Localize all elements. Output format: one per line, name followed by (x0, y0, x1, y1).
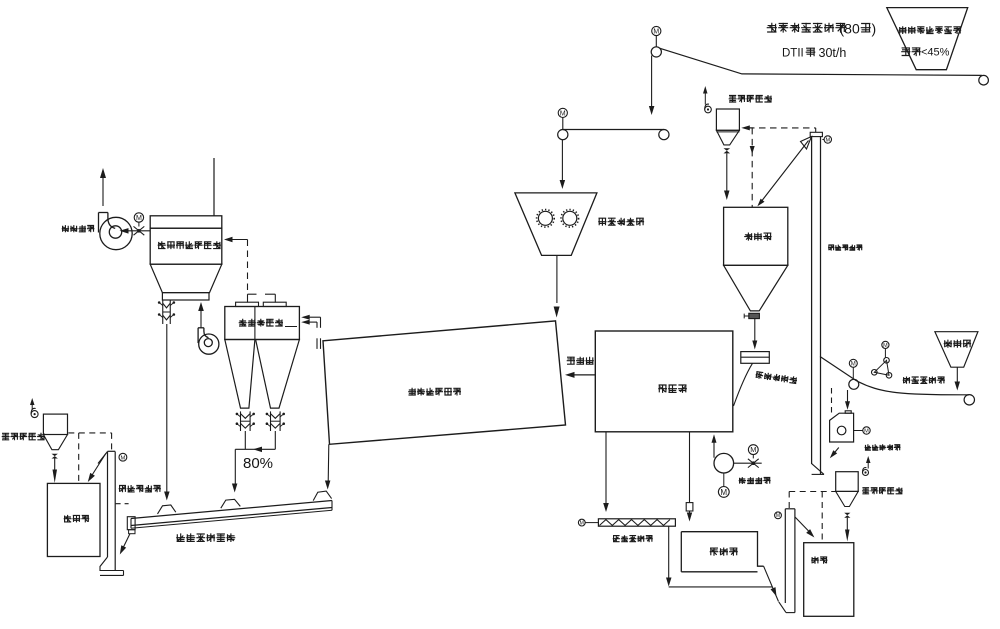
duct from dryer to cyclone (with break) (320, 317, 322, 328)
motor M - left elevator (119, 453, 127, 461)
unit collector cone (left) (43, 435, 67, 450)
motor M - ring belt conveyor head pulley (652, 26, 661, 35)
unit collector cone (slag) (836, 491, 859, 506)
slag elevator column (784, 509, 786, 603)
fan - cyclone exhaust fan (199, 334, 219, 354)
air conveying chute bar (131, 501, 332, 519)
drop arrow to slag silo (846, 518, 848, 530)
unit dust collector (left) body (43, 414, 67, 434)
label bucket elevator (right) (828, 245, 862, 251)
motor M - crusher (863, 427, 870, 434)
svg-text:M: M (653, 28, 659, 35)
drop line collector to coal bin (726, 154, 728, 193)
product silo (47, 483, 100, 556)
feeder chute into furnace (734, 363, 753, 406)
label forced feeding hopper (598, 218, 644, 226)
screw discharge line to slag elevator (668, 526, 670, 579)
label raw coal hopper (944, 340, 971, 348)
motor M - feed belt (558, 108, 567, 117)
furnace drop to slag cooler (689, 432, 691, 503)
cyclone cone 1 (225, 340, 255, 409)
label tail exhaust fan (62, 225, 95, 232)
dashed dust lines to unit collector (slag) (788, 492, 790, 509)
tail pulley - ring belt conveyor (979, 75, 989, 85)
svg-text:M: M (864, 428, 869, 434)
blower fan circle (714, 453, 734, 473)
motor M - take-up (882, 341, 889, 348)
crushed coal bin (724, 207, 788, 265)
belt drop arrow into crusher (847, 390, 849, 403)
coal feeder (741, 352, 770, 364)
chute inlet bump 3 (right end) (313, 491, 331, 501)
rotary dryer body (323, 321, 566, 444)
label kaohua vacuum pre-hanging machine (899, 26, 962, 34)
label screw conveyor (613, 535, 653, 542)
label cyclone dust collector (239, 319, 283, 327)
bucket elevator column (left) (107, 452, 109, 558)
svg-text:M: M (825, 137, 830, 143)
chute inlet bump 2 (221, 499, 241, 508)
label ring belt conveyor (80m) (767, 23, 846, 33)
label product silo (64, 515, 89, 523)
label slag cooler (710, 548, 738, 556)
chute to elevator boot arrow (123, 534, 131, 549)
bag dust collector body (150, 228, 222, 264)
drop line to air chute (234, 449, 236, 486)
inlet arrow into top collector (745, 127, 753, 129)
crusher rotor circle (837, 426, 846, 435)
dashed dust header to elevator top (748, 127, 816, 129)
dashed line belt to crusher (831, 388, 833, 414)
valve X - blower (748, 459, 759, 468)
chute left feed box (127, 517, 135, 530)
pulley left - feed belt (558, 130, 568, 140)
unit dust collector (slag) body (836, 472, 859, 492)
label hot air pipe (567, 357, 594, 365)
cyclone top cap 2 (263, 302, 286, 306)
motor M - blower (718, 487, 729, 498)
bag collector discharge line to chute (166, 324, 168, 493)
fan - tail exhaust fan (100, 217, 132, 249)
dashed drop line into coal bin with arrow (751, 128, 753, 207)
bag collector hopper (150, 264, 222, 292)
elevator top cap (108, 450, 116, 452)
elevator boot (left) (100, 557, 124, 571)
chute inlet bump 1 (158, 505, 176, 514)
crusher discharge arrow to elevator boot (833, 448, 839, 456)
svg-text:M: M (750, 445, 756, 454)
hammer crusher body (830, 413, 854, 442)
label air conveying chute (176, 533, 235, 542)
exhaust stack of bag collector (213, 158, 215, 216)
diagonal elevator-to-bin line (double arrows) (761, 141, 809, 203)
gate valve under coal bin (749, 313, 760, 318)
svg-text:M: M (560, 110, 566, 117)
feed line hopper to rotary dryer (556, 255, 558, 303)
cyclone outlet stub right (265, 293, 275, 295)
belt line - feed belt (563, 129, 664, 131)
fan - unit collector top (705, 106, 712, 113)
motor M - slag elevator (775, 512, 782, 519)
valve - unit collector slag (844, 513, 850, 516)
dash stub near elevator (116, 503, 129, 505)
label unit dust collector slag (862, 487, 903, 494)
valve - unit collector top (724, 148, 731, 151)
svg-text:30t/h: 30t/h (819, 46, 847, 60)
bag dust collector top band (150, 216, 222, 228)
label quantitative coal feeder (755, 371, 797, 384)
blower supply line to furnace (713, 438, 715, 458)
cyclone outlet stub left (247, 294, 249, 302)
label blower fan (739, 477, 771, 484)
flap valve cyclone 1 (240, 411, 242, 431)
svg-text:M: M (776, 513, 780, 519)
svg-text:): ) (872, 21, 877, 37)
elevator boot (right) (812, 464, 824, 475)
take-up pulley triangle (884, 358, 890, 364)
svg-text:M: M (883, 343, 888, 349)
dashed riser cyclone to bag collector (247, 240, 249, 295)
exhaust stack line up (102, 176, 104, 206)
svg-text:M: M (136, 214, 142, 222)
motor M - main elevator (824, 136, 831, 143)
valve - unit collector left (52, 454, 58, 456)
svg-text:M: M (851, 361, 856, 367)
flap valve cyclone 2 (270, 411, 272, 431)
toothed roller 1 (538, 211, 552, 225)
label unit dust collector left (2, 433, 45, 441)
belt line - raw coal belt conveyor (820, 357, 969, 395)
drop arrow to product silo (54, 459, 56, 471)
drop line from head pulley (651, 56, 653, 108)
motor M - fan valve (134, 213, 143, 222)
svg-text:<45%: <45% (921, 47, 950, 59)
motor M - screw conveyor (578, 519, 585, 526)
label moisture <45% (901, 47, 921, 56)
line coal bin to feeder (754, 319, 756, 342)
slag silo (804, 543, 854, 617)
screw conveyor bar (598, 519, 675, 526)
cyclone cone 2 (256, 340, 300, 409)
label unit dust collector top (729, 95, 772, 103)
cyclone divider (254, 307, 256, 340)
belt line - ring belt conveyor (660, 48, 982, 75)
svg-text:DTII: DTII (782, 48, 804, 60)
motor M - raw coal belt (849, 359, 857, 367)
pulley right - feed belt (659, 130, 669, 140)
coal bin cone (724, 265, 788, 311)
label hammer crusher (865, 444, 901, 450)
label crushed coal bin (744, 233, 771, 241)
svg-text:80%: 80% (243, 455, 273, 472)
fluidized bed furnace (595, 331, 733, 432)
label raw coal belt conveyor (903, 377, 945, 384)
head pulley - raw coal belt (849, 379, 859, 389)
svg-text:M: M (120, 455, 125, 461)
dryer discharge line to chute (327, 444, 330, 482)
cyclone main box (225, 307, 300, 340)
slag cooler discharge diagonal to elevator boot (764, 566, 779, 601)
hopper drop arrow onto belt (956, 367, 958, 383)
blower outlet line (734, 462, 762, 464)
rotary double-flap valve under bag collector (162, 300, 164, 324)
fan - unit collector left (31, 411, 38, 418)
slag cooler body (681, 532, 763, 567)
hot air pipe arrow (570, 374, 595, 376)
bag collector bottom band (162, 293, 209, 300)
slag elevator boot (779, 602, 786, 613)
hopper - kaohua vacuum pre-hanging machine (887, 8, 968, 70)
fan - unit collector slag (863, 470, 869, 476)
unit dust collector (top) body (716, 109, 739, 130)
label slag silo (811, 557, 827, 564)
svg-text:M: M (720, 488, 727, 497)
label rotary dryer (408, 388, 461, 396)
discharge arrow elevator to product silo (91, 454, 106, 478)
tail pulley - raw coal belt (964, 395, 974, 405)
cyclone top cap 1 (236, 302, 259, 306)
label bucket elevator (left) (119, 485, 161, 492)
svg-text:(80: (80 (840, 21, 860, 37)
label fluidized bed furnace (658, 385, 687, 393)
svg-text:M: M (580, 520, 584, 526)
label finished-product bag dust collector (158, 241, 221, 249)
unit collector cone (top) (716, 130, 739, 145)
line fan to bag collector with arrow (200, 309, 202, 328)
discharge line cyclone 1 (244, 431, 246, 449)
collector header line with 80% arrow (235, 448, 275, 450)
bucket elevator column (right) (811, 137, 813, 464)
toothed roller 2 (563, 211, 577, 225)
hopper - forced feeding hopper (515, 193, 597, 256)
head pulley - ring belt conveyor (651, 47, 661, 57)
inlet arrow into bag collector (from cyclone) (228, 239, 248, 241)
inlet arrows into cyclone right side (310, 316, 321, 318)
furnace drop to screw conveyor (605, 432, 607, 504)
drop line to forced feeding hopper (561, 140, 563, 181)
elevator top cap (right) (810, 132, 822, 136)
valve X on fan suction (134, 226, 145, 235)
dashed dust line silo to collector (68, 432, 111, 434)
motor M - blower valve (748, 445, 758, 455)
slag elevator discharge arrow to slag silo (795, 517, 811, 533)
raw coal hopper (935, 332, 978, 368)
suction line collector to fan (128, 230, 150, 232)
discharge line cyclone 2 (274, 431, 276, 449)
